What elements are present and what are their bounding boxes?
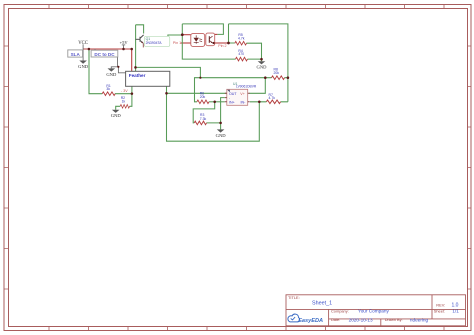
svg-text:VCC: VCC <box>78 41 88 46</box>
svg-text:Sheet_1: Sheet_1 <box>312 301 332 307</box>
svg-text:OUT: OUT <box>229 92 237 96</box>
svg-text:DC to DC: DC to DC <box>94 52 115 57</box>
svg-text:REV:: REV: <box>436 302 445 307</box>
svg-text:Feather: Feather <box>129 73 146 78</box>
svg-text:IN+: IN+ <box>229 101 235 105</box>
svg-text:1/1: 1/1 <box>452 309 459 314</box>
svg-text:Drawn By:: Drawn By: <box>385 317 403 322</box>
svg-text:- 3V: - 3V <box>121 89 128 93</box>
svg-text:TITLE:: TITLE: <box>288 295 300 300</box>
svg-text:4.7k: 4.7k <box>238 37 245 41</box>
svg-text:20k: 20k <box>200 95 206 99</box>
svg-text:Sheet:: Sheet: <box>434 308 445 313</box>
svg-text:EasyEDA: EasyEDA <box>298 318 323 324</box>
svg-text:V+: V+ <box>240 92 245 96</box>
svg-text:LV9061DBVR: LV9061DBVR <box>236 85 257 89</box>
svg-text:Date:: Date: <box>331 317 340 322</box>
svg-text:Q1: Q1 <box>146 37 151 41</box>
svg-text:Pin 2: Pin 2 <box>218 44 226 48</box>
svg-text:+5V: +5V <box>120 40 129 45</box>
svg-text:1k: 1k <box>122 100 126 104</box>
svg-text:Company:: Company: <box>331 308 349 313</box>
svg-text:4.7k: 4.7k <box>269 96 276 100</box>
svg-text:3k: 3k <box>106 87 110 91</box>
svg-text:Your Company: Your Company <box>358 309 389 314</box>
svg-text:7.3k: 7.3k <box>200 117 207 121</box>
svg-text:2020-10-13: 2020-10-13 <box>349 318 373 323</box>
svg-text:IN-: IN- <box>241 101 247 105</box>
svg-text:Pin 1: Pin 1 <box>173 41 181 45</box>
svg-text:ndeering: ndeering <box>410 318 429 323</box>
svg-text:470: 470 <box>238 52 244 56</box>
svg-text:2N3904TA: 2N3904TA <box>146 41 163 45</box>
svg-text:SLA: SLA <box>71 52 81 57</box>
svg-text:20k: 20k <box>274 71 280 75</box>
